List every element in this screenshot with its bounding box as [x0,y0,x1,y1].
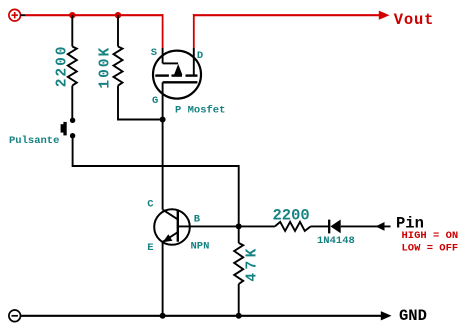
wire emitter to ground rail [162,242,164,316]
svg-text:P Mosfet: P Mosfet [175,105,225,117]
svg-text:GND: GND [399,307,427,325]
node junction on top rail at 2200 [69,12,75,18]
svg-text:D: D [197,50,203,62]
resistor R1 2200 (pull-up) [68,15,77,120]
wire base to resistor [178,225,275,227]
wire top rail left (red) [25,14,164,16]
GND arrowhead [381,311,392,320]
svg-text:Vout: Vout [394,11,434,29]
node ground junction at emitter [160,313,166,319]
pushbutton S1 Pulsante [61,118,76,139]
minus terminal [9,310,21,322]
svg-text:1N4148: 1N4148 [317,235,355,247]
node gate junction [160,117,166,123]
wire resistor to diode [311,225,329,227]
plus terminal [9,9,21,21]
svg-text:2200: 2200 [273,206,310,224]
resistor R3 2200 (base, horizontal) [275,222,311,231]
svg-text:LOW = OFF: LOW = OFF [402,243,459,255]
resistor R2 100K [114,15,163,119]
svg-text:47K: 47K [244,245,260,281]
wire top rail right (red) from drain to Vout [193,14,195,48]
svg-text:E: E [147,242,153,254]
node base junction [236,223,242,229]
svg-text:G: G [152,95,158,107]
svg-text:100K: 100K [98,46,114,89]
svg-text:NPN: NPN [191,241,210,253]
Vout arrowhead [379,11,390,20]
svg-text:HIGH = ON: HIGH = ON [402,230,459,242]
wire gate junction down to collector [162,120,164,210]
svg-text:C: C [147,198,154,210]
svg-text:2200: 2200 [55,44,71,87]
wire ground rail [21,315,382,317]
node ground junction at 47K [236,313,242,319]
svg-text:B: B [194,213,201,225]
wire diode to Pin with arrowhead [341,225,391,227]
svg-text:Pulsante: Pulsante [9,135,59,147]
wire pushbutton to base corner [73,136,239,227]
diode D1 1N4148 [329,220,341,234]
Pin arrowhead [376,222,385,231]
svg-text:S: S [151,47,157,59]
resistor R4 47K [234,226,243,315]
npn transistor Q2 [154,209,190,245]
p-mosfet Q1 [153,48,201,120]
wire black nub from plus terminal [21,14,26,16]
node junction on top rail at 100K [115,12,121,18]
